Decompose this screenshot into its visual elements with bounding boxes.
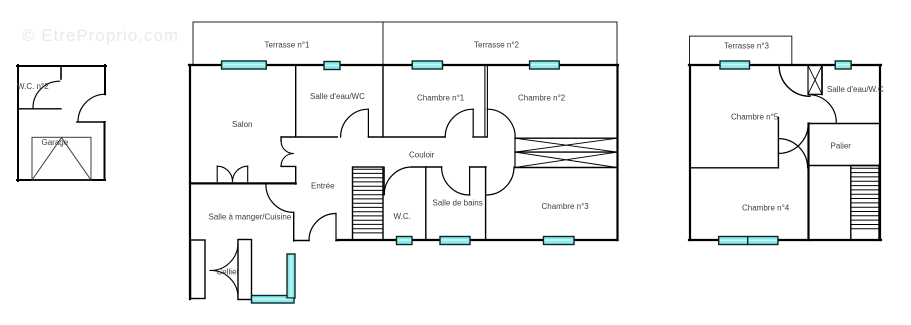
chambre1 door leaf [472, 109, 474, 137]
wall WC/SdB [425, 167, 427, 240]
svg-text:Chambre n°2: Chambre n°2 [518, 94, 566, 103]
X door rect [808, 66, 822, 95]
placard X bottom [515, 152, 617, 167]
window cellier right vertical [287, 254, 295, 298]
window WC bottom [397, 237, 413, 245]
terrace door arc [779, 66, 810, 97]
stair right box [851, 166, 879, 241]
window cellier bottom [252, 296, 295, 304]
window chambre1 top [412, 61, 442, 69]
svg-text:Chambre n°5: Chambre n°5 [731, 113, 779, 122]
wall right lower [104, 122, 106, 180]
salon-entree corner [281, 166, 296, 184]
svg-text:Cellier: Cellier [217, 268, 240, 277]
cellier K door arcs [210, 243, 238, 271]
placard X top [515, 138, 617, 152]
double door salon/salle a manger leaves [217, 166, 248, 181]
palier top wall [809, 123, 881, 125]
svg-text:Salle à manger/Cuisine: Salle à manger/Cuisine [209, 213, 292, 222]
svg-text:Garage: Garage [42, 138, 69, 147]
placard left edge [514, 138, 516, 167]
couloir bottom wall segments [412, 166, 442, 168]
left exterior wall [189, 65, 191, 299]
salle d'eau door leaf [367, 109, 369, 137]
cuisine door arc [266, 185, 294, 213]
door arc WC n2 [33, 81, 60, 108]
window chambre4 bottom A [719, 237, 748, 245]
salon-entree double door arcs [281, 141, 293, 153]
right exterior wall [879, 65, 881, 240]
chambre3 door arc [486, 167, 514, 195]
svg-text:Entrée: Entrée [311, 182, 335, 191]
terrace right line [616, 22, 618, 65]
entree bottom wall left stub [294, 240, 309, 242]
salon-entree wall stub top [280, 137, 282, 141]
window SdB bottom [440, 237, 470, 245]
salle d'eau door arc [809, 95, 837, 123]
terrace divider [382, 22, 384, 65]
svg-text:Salon: Salon [232, 120, 252, 129]
bottom wall [689, 239, 881, 241]
svg-text:Chambre n°3: Chambre n°3 [542, 202, 590, 211]
WC door arc [384, 167, 412, 195]
svg-text:Chambre n°4: Chambre n°4 [742, 204, 790, 213]
window terrasse3 top [720, 61, 750, 69]
chambre5 south wall [690, 167, 778, 169]
placard top [515, 137, 617, 139]
svg-text:Terrasse n°3: Terrasse n°3 [724, 42, 770, 51]
svg-text:Terrasse n°2: Terrasse n°2 [474, 41, 520, 50]
svg-text:W.C.: W.C. [394, 212, 411, 221]
window salle d'eau top [324, 62, 340, 70]
wall salon / salle d'eau [295, 65, 297, 137]
wall step [77, 121, 105, 123]
salle d'eau west wall [821, 65, 823, 95]
window chambre3 bottom [544, 237, 575, 245]
wall WC n2 right stub [60, 66, 62, 79]
svg-text:Salle d'eau/WC: Salle d'eau/WC [310, 92, 365, 101]
double door salon/salle a manger arcs [217, 166, 232, 181]
right exterior wall [616, 65, 618, 240]
wall WC n2 bottom [18, 108, 61, 110]
salle a manger top wall [190, 182, 296, 184]
chambre1 door arc [445, 109, 473, 137]
wall left exterior [17, 65, 19, 181]
wall chambre1 / chambre2 double [484, 65, 486, 137]
chambre2 door arc [487, 109, 515, 137]
garage door chevron [32, 138, 91, 180]
svg-text:Terrasse n°1: Terrasse n°1 [265, 41, 311, 50]
svg-text:W.C. n°2: W.C. n°2 [17, 82, 49, 91]
chambre5/palier wall [777, 117, 779, 168]
palier/stair divider wall [809, 165, 881, 167]
left exterior wall [689, 65, 691, 240]
couloir top wall segments [281, 136, 337, 138]
window salle d'eau right top [835, 61, 851, 69]
WC door leaf [383, 167, 385, 195]
svg-text:Chambre n°1: Chambre n°1 [417, 94, 465, 103]
bottom wall east part [337, 239, 618, 241]
wall SdB/chambre3 [485, 167, 487, 240]
window chambre4 bottom B [748, 237, 778, 245]
salle d'eau door arc [341, 109, 369, 137]
chambre5 door arc 2 [778, 124, 808, 154]
front door arc [309, 214, 336, 241]
wall salle d'eau / chambre1 [382, 65, 384, 137]
palier west wall [807, 124, 809, 241]
front door leaf [335, 214, 337, 241]
cellier west bar [191, 240, 206, 299]
wall right upper [104, 65, 106, 94]
wall cuisine/entree lower [293, 212, 295, 241]
wall bottom exterior [17, 179, 105, 181]
door arc garage side entry [78, 94, 106, 122]
garage door rect [32, 137, 91, 180]
svg-text:Salle de bains: Salle de bains [433, 199, 483, 208]
window inner stripes [223, 65, 851, 299]
main top wall [689, 64, 881, 66]
SdB door arc [442, 167, 470, 195]
SdB door leaf [469, 167, 471, 195]
stair right rungs [851, 168, 879, 229]
cellier east bar [238, 240, 252, 300]
stair middle box [353, 167, 384, 240]
window chambre2 top [530, 61, 560, 69]
wall top exterior [17, 65, 106, 67]
stair middle rungs [353, 169, 384, 233]
terrace 1+2 top line [193, 21, 617, 23]
main top wall [189, 64, 618, 66]
window salon top [222, 61, 267, 69]
terrace3 box [690, 36, 792, 64]
X door diagonals [808, 66, 822, 95]
svg-text:Salle d'eau/W.C: Salle d'eau/W.C [827, 85, 884, 94]
svg-text:Palier: Palier [831, 142, 852, 151]
svg-text:Couloir: Couloir [409, 151, 435, 160]
svg-text:© EtreProprio.com: © EtreProprio.com [22, 26, 179, 45]
placard bottom [515, 167, 617, 169]
placard mid [515, 151, 617, 153]
terrace left line [192, 22, 194, 65]
chambre5 door arc 1 [778, 139, 807, 168]
entree bottom wall right to WC [336, 240, 337, 242]
